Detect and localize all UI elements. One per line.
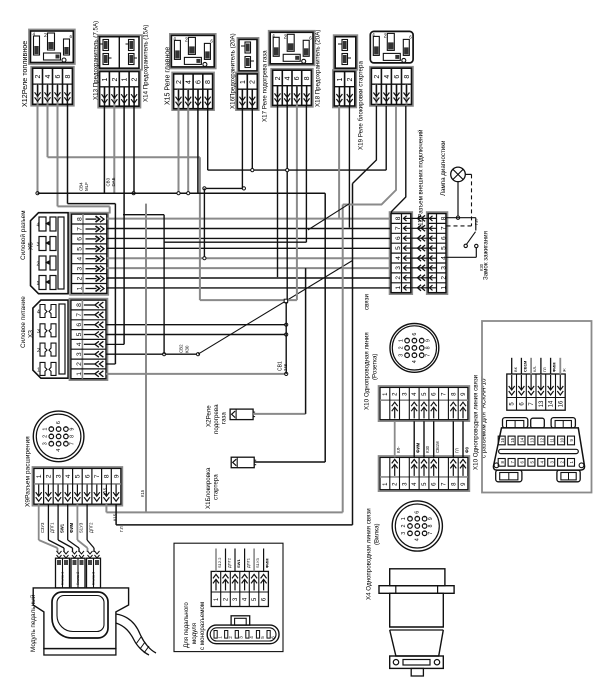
svg-text:СВ1М: СВ1М bbox=[523, 360, 528, 372]
svg-text:2: 2 bbox=[395, 276, 402, 280]
svg-text:16: 16 bbox=[500, 437, 505, 442]
svg-text:2: 2 bbox=[284, 34, 287, 40]
svg-text:DАБ: DАБ bbox=[111, 177, 116, 186]
svg-text:7: 7 bbox=[425, 354, 431, 357]
svg-text:3: 3 bbox=[76, 352, 83, 356]
svg-text:3: 3 bbox=[76, 267, 83, 271]
svg-text:1: 1 bbox=[37, 281, 40, 287]
svg-text:9: 9 bbox=[113, 474, 120, 478]
svg-text:(Розетка): (Розетка) bbox=[371, 354, 378, 380]
svg-text:К30: К30 bbox=[425, 445, 430, 453]
svg-text:5: 5 bbox=[260, 636, 265, 639]
svg-text:Лампа диагностики: Лампа диагностики bbox=[440, 140, 447, 196]
svg-text:9: 9 bbox=[428, 517, 434, 520]
svg-text:7: 7 bbox=[76, 227, 83, 231]
svg-text:X18 Предохранитель (20А): X18 Предохранитель (20А) bbox=[314, 30, 321, 107]
svg-text:Клапан1: Клапан1 bbox=[61, 572, 65, 585]
svg-text:К15: К15 bbox=[102, 487, 107, 495]
svg-text:с моноразъемом: с моноразъемом bbox=[199, 602, 206, 650]
svg-text:X13 Предохранитель (7.5А): X13 Предохранитель (7.5А) bbox=[92, 21, 99, 100]
svg-text:1: 1 bbox=[122, 78, 129, 82]
svg-text:8: 8 bbox=[76, 217, 83, 221]
svg-text:4: 4 bbox=[65, 474, 72, 478]
svg-text:1: 1 bbox=[102, 78, 109, 82]
svg-text:8: 8 bbox=[404, 75, 411, 79]
svg-text:3: 3 bbox=[43, 442, 49, 445]
svg-text:КЛ-: КЛ- bbox=[396, 446, 401, 453]
svg-text:2: 2 bbox=[374, 75, 381, 79]
svg-text:МLF: МLF bbox=[84, 182, 89, 191]
svg-text:4: 4 bbox=[415, 538, 421, 541]
svg-text:X10 Однопроводная линия свя: X10 Однопроводная линия связи bbox=[472, 374, 479, 470]
svg-text:248: 248 bbox=[283, 363, 288, 371]
svg-text:5: 5 bbox=[395, 246, 402, 250]
svg-text:2: 2 bbox=[37, 262, 40, 268]
svg-text:4: 4 bbox=[37, 223, 40, 229]
svg-text:Однопроводная линия: Однопроводная линия bbox=[363, 332, 370, 397]
svg-text:ФИМ: ФИМ bbox=[552, 362, 557, 372]
svg-text:1: 1 bbox=[217, 636, 222, 639]
svg-text:X9Разъем расширения: X9Разъем расширения bbox=[25, 436, 32, 507]
svg-text:X12Реле топливное: X12Реле топливное bbox=[20, 41, 29, 107]
svg-text:К15: К15 bbox=[140, 489, 145, 497]
svg-text:13: 13 bbox=[539, 400, 545, 407]
svg-text:S1УЗ: S1УЗ bbox=[79, 522, 84, 533]
svg-text:6: 6 bbox=[195, 80, 202, 84]
svg-text:8: 8 bbox=[304, 76, 311, 80]
svg-text:4: 4 bbox=[76, 342, 83, 346]
svg-text:16: 16 bbox=[558, 400, 564, 407]
svg-text:8: 8 bbox=[205, 80, 212, 84]
svg-text:8: 8 bbox=[428, 525, 434, 528]
svg-text:ДПГ2: ДПГ2 bbox=[227, 557, 232, 568]
svg-text:3: 3 bbox=[37, 242, 40, 248]
svg-text:1: 1 bbox=[440, 286, 447, 290]
svg-text:2: 2 bbox=[275, 76, 282, 80]
svg-text:X2Реле: X2Реле bbox=[205, 405, 212, 427]
svg-text:5: 5 bbox=[76, 332, 83, 336]
svg-text:2: 2 bbox=[440, 276, 447, 280]
svg-text:СВ2: СВ2 bbox=[178, 344, 183, 353]
svg-text:X11 Разъем внешних подключений: X11 Разъем внешних подключений bbox=[417, 129, 424, 230]
svg-text:1: 1 bbox=[395, 286, 402, 290]
svg-text:4: 4 bbox=[384, 75, 391, 79]
svg-text:8: 8 bbox=[425, 346, 431, 349]
svg-text:6: 6 bbox=[394, 75, 401, 79]
svg-text:9: 9 bbox=[70, 428, 76, 431]
svg-text:ФИМ: ФИМ bbox=[265, 558, 270, 568]
svg-text:1: 1 bbox=[398, 339, 404, 342]
svg-text:Ф0: Ф0 bbox=[464, 446, 469, 453]
svg-text:Клапан3: Клапан3 bbox=[92, 572, 96, 585]
svg-text:1: 1 bbox=[43, 428, 49, 431]
svg-text:6: 6 bbox=[415, 511, 421, 514]
svg-text:5: 5 bbox=[75, 474, 82, 478]
svg-text:X1Блокировка: X1Блокировка bbox=[205, 467, 212, 509]
svg-text:4: 4 bbox=[45, 75, 52, 79]
svg-text:X15 Реле главное: X15 Реле главное bbox=[165, 47, 172, 105]
svg-text:КЛ-: КЛ- bbox=[532, 365, 537, 372]
svg-text:2: 2 bbox=[44, 33, 47, 39]
svg-text:2: 2 bbox=[185, 37, 188, 43]
svg-text:2: 2 bbox=[401, 525, 407, 528]
svg-text:6: 6 bbox=[395, 236, 402, 240]
svg-text:6: 6 bbox=[76, 323, 83, 327]
svg-text:7: 7 bbox=[94, 474, 101, 478]
svg-text:Силовое питание: Силовое питание bbox=[20, 296, 27, 348]
svg-text:2: 2 bbox=[35, 75, 42, 79]
svg-text:4: 4 bbox=[440, 256, 447, 260]
svg-text:4: 4 bbox=[395, 256, 402, 260]
svg-text:2: 2 bbox=[250, 80, 257, 84]
svg-text:ДПГ2: ДПГ2 bbox=[88, 522, 93, 533]
svg-text:13: 13 bbox=[530, 437, 535, 442]
svg-text:5: 5 bbox=[76, 247, 83, 251]
svg-text:8: 8 bbox=[65, 75, 72, 79]
svg-text:9: 9 bbox=[425, 339, 431, 342]
svg-text:1: 1 bbox=[76, 372, 83, 376]
svg-text:2: 2 bbox=[228, 636, 233, 639]
svg-text:модуля: модуля bbox=[191, 623, 198, 644]
svg-text:8: 8 bbox=[395, 216, 402, 220]
svg-text:14: 14 bbox=[520, 437, 525, 442]
svg-text:4: 4 bbox=[76, 257, 83, 261]
svg-text:1: 1 bbox=[401, 517, 407, 520]
svg-text:ГЛ: ГЛ bbox=[455, 448, 460, 453]
svg-text:2: 2 bbox=[398, 346, 404, 349]
svg-text:3: 3 bbox=[398, 354, 404, 357]
svg-text:X17 Реле подогрева газа: X17 Реле подогрева газа bbox=[261, 50, 268, 122]
svg-text:2: 2 bbox=[43, 435, 49, 438]
svg-text:6: 6 bbox=[55, 75, 62, 79]
svg-text:7: 7 bbox=[395, 226, 402, 230]
svg-text:S12.2: S12.2 bbox=[217, 557, 222, 568]
svg-text:2: 2 bbox=[176, 80, 183, 84]
svg-text:стартера: стартера bbox=[212, 474, 219, 500]
svg-text:7: 7 bbox=[76, 313, 83, 317]
svg-text:Клапан2: Клапан2 bbox=[76, 572, 80, 585]
svg-text:3: 3 bbox=[440, 266, 447, 270]
svg-text:Силовой разъем: Силовой разъем bbox=[19, 210, 27, 260]
svg-text:ГЛ: ГЛ bbox=[542, 367, 547, 372]
svg-text:2: 2 bbox=[46, 474, 53, 478]
svg-text:ВК: ВК bbox=[513, 366, 518, 372]
svg-text:Для педального: Для педального bbox=[183, 602, 190, 648]
svg-text:4: 4 bbox=[37, 310, 40, 316]
svg-text:4: 4 bbox=[249, 636, 254, 639]
svg-text:2: 2 bbox=[132, 78, 139, 82]
svg-text:X16Предохранитель (20А): X16Предохранитель (20А) bbox=[229, 33, 236, 109]
svg-text:3: 3 bbox=[55, 474, 62, 478]
svg-text:3: 3 bbox=[401, 532, 407, 535]
svg-text:X10: X10 bbox=[363, 398, 370, 410]
svg-text:ФИМ: ФИМ bbox=[416, 442, 421, 453]
svg-text:8: 8 bbox=[70, 435, 76, 438]
svg-text:ДПГ1: ДПГ1 bbox=[246, 557, 251, 568]
svg-text:14: 14 bbox=[549, 400, 555, 407]
svg-text:связи: связи bbox=[363, 294, 370, 310]
svg-text:2: 2 bbox=[37, 348, 40, 354]
svg-text:СВ1М: СВ1М bbox=[435, 441, 440, 453]
svg-text:1: 1 bbox=[240, 80, 247, 84]
svg-text:СВ3: СВ3 bbox=[105, 177, 110, 186]
svg-text:7: 7 bbox=[440, 226, 447, 230]
svg-text:7: 7 bbox=[428, 532, 434, 535]
svg-text:SW1: SW1 bbox=[59, 523, 64, 533]
svg-text:2: 2 bbox=[347, 78, 354, 82]
svg-text:3: 3 bbox=[37, 329, 40, 335]
svg-text:2: 2 bbox=[112, 78, 119, 82]
svg-text:Г.Л: Г.Л bbox=[119, 526, 124, 532]
svg-text:(Вилка): (Вилка) bbox=[373, 523, 380, 545]
svg-text:1: 1 bbox=[36, 474, 43, 478]
svg-text:ДПГ1: ДПГ1 bbox=[50, 522, 55, 533]
svg-text:2: 2 bbox=[76, 276, 83, 280]
svg-text:3: 3 bbox=[395, 266, 402, 270]
svg-text:4: 4 bbox=[285, 76, 292, 80]
svg-text:X14 Предохранитель (15А): X14 Предохранитель (15А) bbox=[142, 25, 149, 102]
svg-text:12: 12 bbox=[539, 437, 544, 442]
svg-text:6: 6 bbox=[294, 76, 301, 80]
svg-text:3: 3 bbox=[239, 636, 244, 639]
svg-text:газа: газа bbox=[220, 412, 227, 424]
svg-text:1: 1 bbox=[337, 78, 344, 82]
svg-text:5: 5 bbox=[440, 246, 447, 250]
svg-text:11: 11 bbox=[549, 438, 554, 443]
svg-text:7: 7 bbox=[70, 442, 76, 445]
svg-text:10: 10 bbox=[559, 437, 564, 442]
svg-text:6: 6 bbox=[56, 421, 62, 424]
svg-text:4: 4 bbox=[56, 449, 62, 452]
svg-text:ФИМ: ФИМ bbox=[69, 522, 74, 533]
svg-text:2: 2 bbox=[76, 362, 83, 366]
svg-text:СВ4: СВ4 bbox=[78, 182, 83, 191]
svg-text:2: 2 bbox=[384, 33, 387, 39]
svg-text:15: 15 bbox=[510, 437, 515, 442]
svg-text:8: 8 bbox=[76, 303, 83, 307]
svg-text:С3УЗ: С3УЗ bbox=[40, 522, 45, 533]
svg-text:8: 8 bbox=[104, 474, 111, 478]
svg-text:1: 1 bbox=[37, 367, 40, 373]
svg-text:SW1: SW1 bbox=[236, 559, 241, 568]
svg-text:S1УЗ: S1УЗ bbox=[255, 558, 260, 568]
svg-text:6: 6 bbox=[76, 237, 83, 241]
svg-text:подогрева: подогрева bbox=[213, 404, 220, 434]
svg-text:К30: К30 bbox=[184, 345, 189, 353]
svg-text:6: 6 bbox=[412, 333, 418, 336]
svg-text:4: 4 bbox=[186, 80, 193, 84]
svg-text:1: 1 bbox=[76, 286, 83, 290]
svg-text:6: 6 bbox=[440, 236, 447, 240]
svg-text:6: 6 bbox=[270, 636, 275, 639]
svg-text:X19 Реле блокировки стартера: X19 Реле блокировки стартера bbox=[357, 61, 364, 150]
svg-text:Замок зажигания: Замок зажигания bbox=[482, 231, 489, 280]
svg-text:К15: К15 bbox=[113, 513, 118, 521]
svg-text:Ж: Ж bbox=[561, 368, 566, 372]
svg-text:4: 4 bbox=[412, 360, 418, 363]
svg-text:6: 6 bbox=[84, 474, 91, 478]
svg-text:X4 Однопроводная линия связ: X4 Однопроводная линия связи bbox=[365, 508, 372, 600]
